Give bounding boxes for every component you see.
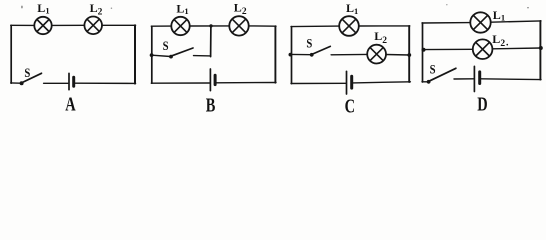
- svg-text:S: S: [163, 38, 169, 53]
- svg-text:A: A: [65, 92, 76, 115]
- svg-text:D: D: [477, 92, 487, 115]
- svg-text:C: C: [345, 94, 355, 115]
- svg-text:S: S: [24, 65, 30, 80]
- svg-text:S: S: [306, 36, 312, 51]
- svg-text:B: B: [206, 93, 216, 115]
- svg-text:S: S: [430, 62, 436, 77]
